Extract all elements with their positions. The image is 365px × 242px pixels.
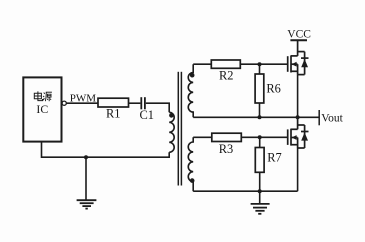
wire PWM to R1 [66, 102, 98, 104]
svg-text:C1: C1 [140, 108, 154, 122]
wire primary bottom return to IC [42, 142, 170, 158]
Q2 diode triangle [301, 132, 308, 140]
wire down to left ground [85, 157, 87, 199]
wire R7 bottom [259, 172, 261, 191]
primary polarity dot [169, 113, 174, 118]
secondary bottom polarity dot [190, 178, 195, 183]
Q1 source vertical [297, 64, 299, 74]
transformer core [177, 72, 179, 186]
Q2 drain lead [297, 117, 299, 129]
Q2 channel bar [290, 129, 292, 146]
junction dot ground tap [84, 155, 88, 159]
wire junction to R7 [259, 137, 261, 147]
svg-text:Vout: Vout [321, 113, 343, 125]
label 源 (of 电源) [43, 92, 52, 101]
wire mid rail to Vout [193, 116, 319, 118]
resistor R6 [255, 74, 264, 103]
resistor R7 [255, 148, 264, 173]
PWM terminal circle [62, 101, 66, 105]
junction dot R6 top [258, 62, 262, 66]
svg-text:R3: R3 [219, 142, 233, 156]
MOSFET Q2 (bottom) [288, 117, 309, 148]
capacitor C1 [140, 97, 142, 109]
IC box U1 [23, 77, 61, 141]
svg-text:R2: R2 [219, 69, 233, 83]
svg-text:VCC: VCC [287, 29, 311, 41]
Q1 channel bottom connection [291, 70, 298, 72]
svg-text:R1: R1 [106, 107, 120, 121]
Vout terminal bar [318, 110, 320, 125]
Q1 channel top connection [291, 55, 298, 57]
transformer primary winding [169, 112, 174, 152]
resistor R3 [212, 133, 242, 141]
wire secondary top to R2 [193, 63, 211, 65]
svg-text:IC: IC [36, 102, 48, 116]
svg-text:R6: R6 [266, 81, 280, 95]
secondary top polarity dot [190, 73, 195, 78]
Q1 diode bottom branch [298, 74, 305, 76]
wire junction to R6 [259, 64, 261, 74]
Q1 diode triangle [301, 59, 308, 67]
Q1 gate bar [287, 56, 289, 72]
secondary top winding [188, 64, 193, 117]
junction dot mid rail MOSFET [296, 115, 300, 119]
Q2 channel top connection [291, 128, 298, 130]
wire C1 to primary top [146, 103, 169, 112]
Q1 drain lead [297, 40, 299, 56]
ground (left) [77, 200, 97, 208]
wire down to center ground [259, 191, 261, 203]
Q2 diode top branch [298, 124, 305, 126]
Q2 body diode line [304, 125, 306, 148]
Q1 body diode line [304, 52, 306, 75]
junction dot bottom rail [258, 189, 262, 193]
wire R3 to gate of Q2 [241, 136, 287, 138]
Q2 diode bottom branch [298, 147, 305, 149]
Q2 diode cathode bar [301, 131, 309, 133]
resistor R2 [211, 60, 240, 68]
MOSFET Q1 (top) [288, 40, 309, 74]
Q2 arrow head [292, 135, 297, 140]
Q2 source lead down to bottom rail [297, 148, 299, 191]
Q2 source vertical [297, 138, 299, 149]
Q1 source lead down to mid rail [297, 75, 299, 118]
wire R2 to gate of Q1 [240, 63, 287, 65]
wire R1 to C1 [129, 102, 141, 104]
label 电 (of 电源) [34, 91, 42, 100]
junction dot R7 top [258, 135, 262, 139]
Q2 source arrow line [291, 137, 298, 139]
Q2 channel bottom connection [291, 144, 298, 146]
svg-text:R7: R7 [267, 151, 281, 165]
Q1 diode cathode bar [301, 57, 309, 59]
wire R6 bottom [259, 103, 261, 117]
Q1 source arrow line [291, 63, 298, 65]
junction dot mid rail R6 [258, 115, 262, 119]
secondary bottom winding [188, 137, 193, 191]
bottom rail wire [193, 190, 297, 192]
ground (center) [251, 204, 270, 214]
Q1 channel bar [290, 55, 292, 72]
Q1 diode top branch [298, 51, 305, 53]
Q1 arrow head [292, 62, 297, 67]
resistor R1 [98, 98, 129, 107]
Q2 gate bar [287, 129, 289, 145]
VCC supply bar [290, 39, 307, 41]
wire secondary bottom to R3 [193, 136, 212, 138]
